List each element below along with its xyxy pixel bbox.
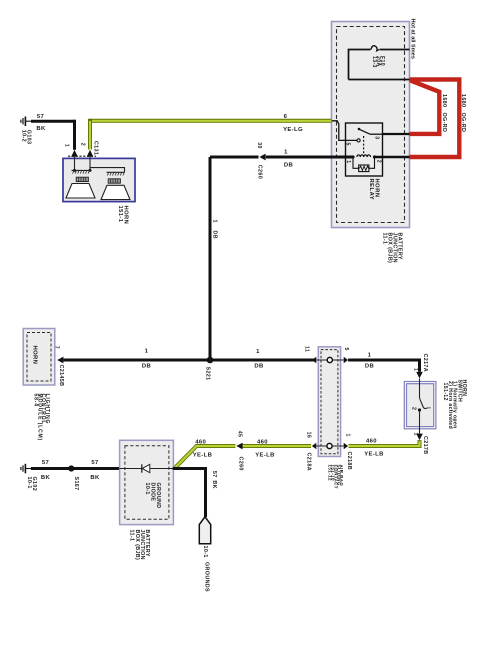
svg-text:11-1: 11-1 [382,233,388,245]
connector C218A pin 11 arrow [304,346,317,363]
svg-text:5: 5 [345,143,351,146]
air bag sliding contact bottom wire [316,443,343,448]
svg-text:BK: BK [36,126,46,132]
svg-text:10-2: 10-2 [21,130,27,142]
svg-text:57: 57 [37,114,45,120]
wire 1 DB to horn switch [348,353,419,372]
lighting control module (LCM) box [23,329,55,386]
svg-text:7: 7 [53,346,59,349]
ground G103 [21,117,32,145]
svg-text:10-1: 10-1 [202,546,208,558]
label Hot at all times [409,19,415,59]
svg-text:10-1: 10-1 [144,483,150,495]
svg-text:460: 460 [195,440,206,446]
connector C131 pin 2 arrow [79,143,93,157]
svg-text:1: 1 [413,433,419,436]
horn switch internals [410,378,431,433]
svg-text:YE-LB: YE-LB [193,452,212,458]
splice S167 [68,465,79,490]
svg-text:2: 2 [79,143,85,146]
svg-text:11: 11 [304,346,310,352]
relay pin 5 wire from YE-LG [332,121,361,146]
svg-text:C131: C131 [92,141,98,155]
svg-text:11-1: 11-1 [129,530,135,542]
svg-text:1: 1 [413,368,419,371]
svg-text:YE-LB: YE-LB [364,451,383,457]
connector C260 pin 45 arrow [236,431,243,471]
svg-text:1: 1 [211,220,217,223]
relay coil between pins 1 and 2 [345,155,381,164]
battery junction box (BJB) bottom / ground diode box [120,440,174,524]
horn switch box [404,382,436,429]
wire 460 YE-LB middle segment [242,440,311,459]
fuse F10 20A 13-3 [349,46,410,80]
svg-text:13-3: 13-3 [371,56,377,68]
connector C218B pin 5 arrow [343,348,349,364]
svg-text:S221: S221 [204,367,210,381]
wire 1 DB vertical trunk [210,157,217,360]
svg-text:BK: BK [90,475,100,481]
air bag sliding contact top wire [316,357,343,362]
svg-text:BK: BK [41,475,51,481]
wire 1 DB S221 to air bag contact labels [254,349,263,370]
connector C2145B pin 7 arrow [53,346,64,387]
wire YE-LG drop to C131 pin 2 [88,119,92,150]
svg-text:57: 57 [42,460,50,466]
svg-text:C217B: C217B [422,436,428,455]
relay switch arm and pin 3 [358,128,383,140]
svg-text:1: 1 [368,353,372,359]
svg-text:1: 1 [284,150,288,156]
svg-text:16: 16 [305,432,311,438]
label HORN RELAY [368,179,379,201]
svg-text:C260: C260 [257,165,263,179]
svg-text:151-12: 151-12 [328,465,333,482]
label HORN 151-1 [117,206,129,225]
svg-text:DB: DB [211,231,217,240]
air bag sliding contact box [318,347,340,457]
connector C217B arrow [413,433,428,455]
svg-text:DB: DB [142,363,151,369]
svg-text:10-1: 10-1 [26,477,32,489]
wire 57 BK to S167 [31,460,119,481]
svg-text:YE-LB: YE-LB [255,452,274,458]
svg-text:151-12: 151-12 [442,383,448,401]
svg-text:HORN: HORN [32,346,38,365]
relay coil dashed actuator line [363,136,365,156]
connector C131 pin 1 arrow [63,144,78,157]
svg-text:6: 6 [284,114,288,120]
svg-text:Hot at all times: Hot at all times [409,19,415,59]
svg-text:1: 1 [145,349,149,355]
svg-text:1: 1 [345,434,351,437]
horn box internal wires [73,157,125,173]
label BATTERY JUNCTION BOX (BJB) 11-1 bottom [129,530,151,561]
svg-text:GROUNDS: GROUNDS [203,562,209,592]
wire 1680 OG-RD outer loop [410,80,460,158]
svg-text:45: 45 [237,431,243,437]
label HORN SWITCH notes [442,380,467,430]
label 1680 OG-RD inner [441,94,447,132]
label 1680 OG-RD outer [460,94,466,132]
svg-text:1680: 1680 [441,94,447,107]
svg-text:2: 2 [375,160,381,163]
ground diode D1 [119,464,172,472]
label BATTERY JUNCTION BOX (BJB) 11-1 top [382,233,403,264]
horn symbol left [66,170,95,198]
connector C260 pin 30 arrow [256,142,265,179]
horn relay U1 box [346,123,383,176]
label AIR BAG SLIDING CONTACT 151-10 151-12 [328,465,345,489]
horn symbol right [101,172,130,199]
svg-text:RELAY: RELAY [368,179,374,201]
svg-text:DB: DB [365,363,374,369]
ground G102 [21,464,37,491]
wire 57 BK horn ground [31,114,75,150]
svg-text:DB: DB [284,162,293,168]
svg-text:S167: S167 [73,477,79,491]
connector C217A arrow [413,354,428,379]
svg-text:OG-RD: OG-RD [460,113,466,133]
wire 1680 OG-RD inner loop [410,80,440,134]
wire 6 YE-LG horizontal [90,114,332,133]
svg-text:460: 460 [366,439,377,445]
wire 1 DB from LCM to S221 [63,349,314,370]
svg-text:1680: 1680 [460,94,466,107]
battery junction box (BJB) top [332,22,410,228]
svg-text:30: 30 [256,142,262,148]
svg-text:57: 57 [91,460,99,466]
svg-text:C217A: C217A [422,354,428,373]
splice S221 [204,357,213,381]
label LIGHTING CONTROL MODULE (LCM) 58-4 [33,394,50,442]
horn component box [63,158,135,201]
svg-text:YE-LG: YE-LG [283,127,303,133]
svg-text:57: 57 [211,471,217,478]
connector C131 dashed mating line and label [68,141,98,156]
svg-text:OG-RD: OG-RD [441,113,447,133]
relay pin 3 wire to red [383,133,410,135]
svg-text:1: 1 [63,144,69,147]
svg-text:460: 460 [257,440,268,446]
svg-text:2: 2 [410,407,416,410]
svg-text:1: 1 [426,407,431,410]
svg-text:C260: C260 [237,457,243,471]
relay parallel resistor [353,157,375,172]
svg-text:C218B: C218B [346,452,352,471]
svg-text:5: 5 [343,348,349,351]
wire 1 DB relay feed horizontal [210,150,410,169]
grounds destination tag 10-1 [199,517,210,592]
svg-text:BK: BK [211,480,217,489]
wire 460 YE-LB from ground diode [175,440,236,469]
wire 57 BK to grounds tag [173,469,217,518]
svg-text:1: 1 [345,160,351,163]
label GROUND DIODE 10-1 [144,483,161,509]
svg-text:C218A: C218A [306,453,312,472]
svg-text:1: 1 [256,349,260,355]
wire 460 YE-LB from horn switch to air bag contact [349,439,420,458]
connector C218B pin 1 arrow bottom [344,434,352,471]
svg-text:C2145B: C2145B [58,365,64,387]
svg-text:3: 3 [373,136,379,139]
svg-text:DB: DB [254,364,263,370]
svg-text:151-1: 151-1 [117,206,123,223]
connector C218A pin 16 arrow bottom [305,432,316,471]
svg-text:58-4: 58-4 [33,394,39,407]
